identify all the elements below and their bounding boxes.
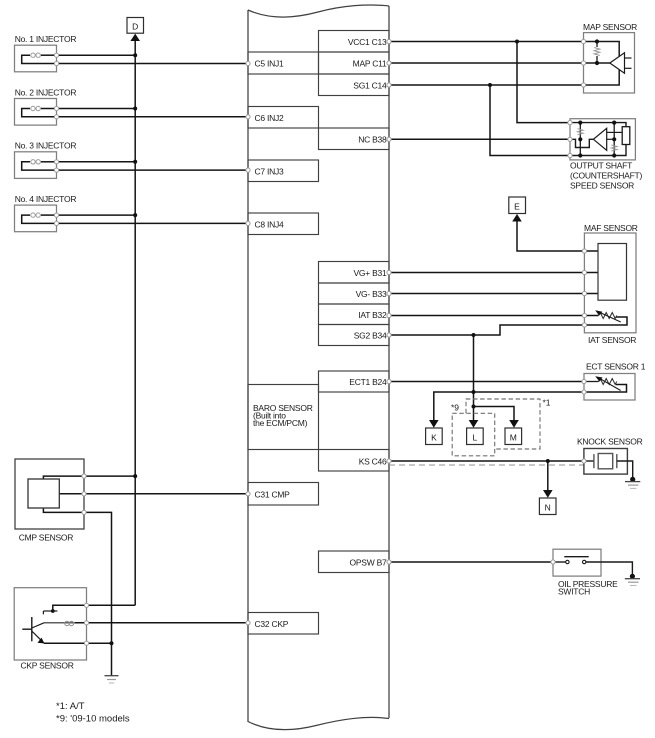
svg-text:MAP C11: MAP C11: [353, 59, 387, 69]
svg-text:SWITCH: SWITCH: [558, 587, 590, 597]
svg-text:the ECM/PCM): the ECM/PCM): [253, 418, 308, 428]
svg-text:C7 INJ3: C7 INJ3: [255, 167, 284, 177]
svg-text:OUTPUT SHAFT: OUTPUT SHAFT: [570, 161, 632, 171]
svg-text:SPEED SENSOR: SPEED SENSOR: [570, 181, 634, 191]
svg-text:C5 INJ1: C5 INJ1: [255, 59, 284, 69]
svg-text:MAP SENSOR: MAP SENSOR: [583, 22, 637, 32]
svg-text:KS C46: KS C46: [359, 457, 387, 467]
svg-text:CMP SENSOR: CMP SENSOR: [19, 533, 74, 543]
svg-text:VG- B33: VG- B33: [356, 289, 387, 299]
svg-text:No. 4 INJECTOR: No. 4 INJECTOR: [15, 194, 77, 204]
svg-text:C6 INJ2: C6 INJ2: [255, 113, 284, 123]
svg-text:K: K: [431, 433, 437, 443]
svg-text:M: M: [510, 433, 517, 443]
svg-text:C31 CMP: C31 CMP: [255, 490, 291, 500]
svg-text:D: D: [132, 22, 138, 32]
svg-text:SG1 C14: SG1 C14: [353, 81, 387, 91]
svg-text:ECT SENSOR 1: ECT SENSOR 1: [586, 362, 646, 372]
svg-text:CKP SENSOR: CKP SENSOR: [21, 661, 74, 671]
svg-text:SG2 B34: SG2 B34: [354, 331, 387, 341]
svg-text:C8 INJ4: C8 INJ4: [255, 220, 284, 230]
svg-text:*9: *9: [451, 403, 459, 413]
svg-text:C32 CKP: C32 CKP: [255, 619, 289, 629]
svg-text:VG+ B31: VG+ B31: [354, 268, 388, 278]
svg-text:ECT1 B24: ECT1 B24: [349, 377, 387, 387]
svg-text:IAT SENSOR: IAT SENSOR: [588, 335, 636, 345]
svg-text:*1: A/T: *1: A/T: [56, 701, 85, 712]
svg-text:IAT B32: IAT B32: [358, 310, 387, 320]
svg-text:*1: *1: [543, 398, 551, 408]
svg-text:OPSW B7: OPSW B7: [350, 558, 388, 568]
svg-text:KNOCK SENSOR: KNOCK SENSOR: [577, 437, 643, 447]
svg-text:NC B38: NC B38: [358, 135, 387, 145]
svg-text:N: N: [545, 503, 551, 513]
svg-text:VCC1 C13: VCC1 C13: [348, 37, 387, 47]
svg-text:MAF SENSOR: MAF SENSOR: [584, 223, 638, 233]
svg-text:L: L: [473, 433, 478, 443]
svg-text:(COUNTERSHAFT): (COUNTERSHAFT): [570, 171, 642, 181]
svg-text:No. 3 INJECTOR: No. 3 INJECTOR: [15, 141, 77, 151]
svg-text:No. 2 INJECTOR: No. 2 INJECTOR: [15, 87, 77, 97]
svg-text:E: E: [514, 202, 520, 212]
svg-text:*9: '09-10 models: *9: '09-10 models: [56, 713, 130, 724]
svg-text:No. 1 INJECTOR: No. 1 INJECTOR: [15, 34, 77, 44]
